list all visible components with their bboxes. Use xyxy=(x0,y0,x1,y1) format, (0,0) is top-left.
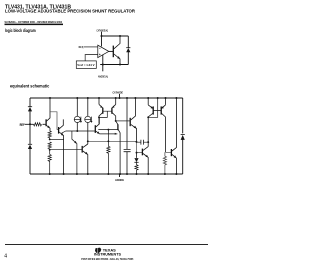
svg-text:REF (R): REF (R) xyxy=(79,45,84,49)
wire: R2/R3 node to Q2 emitter xyxy=(50,138,64,140)
wire: node A bus (I2/Q3 collector to C1) xyxy=(88,140,137,142)
resistor R7 xyxy=(163,156,166,174)
node A: anode pin tick xyxy=(119,174,121,177)
header rule xyxy=(5,24,64,26)
wire: op-amp V- to anode rail xyxy=(102,55,104,65)
wire: logic top rail xyxy=(102,35,129,37)
wire: right diode branch xyxy=(182,98,184,174)
wire: cathode top rail xyxy=(30,97,183,99)
wire: right mirror base tie xyxy=(148,98,161,117)
diode D5 (logic diagram, anode-cathode) xyxy=(126,47,130,49)
transistor Q9a xyxy=(147,98,149,105)
wire: Q8 base chain xyxy=(165,152,172,156)
capacitor C2 (Q6 base to anode) xyxy=(126,98,128,174)
diode D1 (REF to cathode clamp) xyxy=(28,106,32,108)
current mirror pair Q9a/Q9b (right) xyxy=(148,98,165,152)
transistor Q5 xyxy=(116,121,120,174)
svg-text:ANODE (A): ANODE (A) xyxy=(98,75,108,79)
resistor R1 (REF series) xyxy=(34,123,42,126)
junction dots (logic diagram) xyxy=(100,35,102,37)
transistor Q (logic diagram output NPN) xyxy=(113,36,120,65)
junction dots bottom rail xyxy=(49,173,178,175)
transistor Q8 (output) xyxy=(171,98,176,174)
svg-text:CATHODE: CATHODE xyxy=(113,90,124,94)
svg-text:SLVS262A – OCTOBER 2000 – REVI: SLVS262A – OCTOBER 2000 – REVISED MARCH … xyxy=(5,20,63,24)
wire: Q4/Q5 upper tie xyxy=(98,129,118,131)
node A: anode pin tick (logic diagram) xyxy=(102,65,104,72)
wire: mirror base tie xyxy=(99,111,112,117)
wire: right branch to diode D5 xyxy=(127,36,129,65)
diode D4 (anode to cathode protection) xyxy=(181,134,185,136)
wire: left clamp branch xyxy=(29,98,31,174)
current mirror pair Q5a/Q5b (middle) xyxy=(99,98,116,124)
node K: cathode pin tick xyxy=(119,94,121,98)
svg-text:REF: REF xyxy=(20,123,25,127)
transistor Q5a xyxy=(98,98,100,104)
svg-text:V ref = 1.24 V: V ref = 1.24 V xyxy=(77,63,94,67)
Vref reference box xyxy=(76,61,96,69)
transistor Q7 xyxy=(142,147,148,174)
diode D3 xyxy=(136,153,138,158)
current source I2 xyxy=(85,98,92,144)
svg-text:4: 4 xyxy=(4,254,7,260)
diode D2 (anode to REF clamp) xyxy=(28,143,32,145)
wire: Q7 base feed xyxy=(137,142,143,153)
transistor Q4 xyxy=(95,117,99,133)
transistor Q6 xyxy=(130,98,136,142)
resistor R5 xyxy=(107,130,110,174)
wire: Q4/Q5 emitter join xyxy=(100,133,118,135)
wire: I1 output bus to Q4 base xyxy=(61,131,95,133)
footer rule xyxy=(5,243,208,246)
wire: R3/R4 node to Q3 base xyxy=(50,149,82,154)
wire: mirror output to Q6 base xyxy=(116,120,131,122)
wire: logic bottom rail xyxy=(100,64,128,66)
capacitor C1 (compensation) xyxy=(137,141,149,143)
resistor R4 xyxy=(48,154,51,174)
resistor R3 xyxy=(48,142,51,149)
current source I1 xyxy=(74,98,81,131)
TI logo globe xyxy=(95,248,101,253)
svg-text:POST OFFICE BOX 655303 • DALLA: POST OFFICE BOX 655303 • DALLAS, TEXAS 7… xyxy=(81,257,133,261)
wire: Q1 collector to Q2 base tap xyxy=(50,112,59,130)
transistor Q3 xyxy=(82,144,88,174)
junction dots top rail xyxy=(49,97,178,99)
transistor Q2 xyxy=(59,119,64,174)
svg-text:ANODE: ANODE xyxy=(115,178,124,182)
wire: op-amp supply tap xyxy=(101,36,103,46)
junction dots interior xyxy=(29,116,149,153)
wire: anode bottom rail xyxy=(30,173,183,175)
wire: op-amp output to Q base xyxy=(109,50,114,52)
wire: Vref box to noninverting input xyxy=(85,55,98,61)
svg-text:equivalent schematic: equivalent schematic xyxy=(10,84,50,89)
transistor Q9b xyxy=(165,98,167,105)
transistor Q1 xyxy=(45,98,50,131)
transistor Q5b xyxy=(115,98,117,104)
wire: mirror line through Q7 xyxy=(147,142,149,147)
op-amp U1 xyxy=(98,45,109,57)
resistor R2 xyxy=(48,131,51,139)
svg-text:CATHODE (K): CATHODE (K) xyxy=(97,28,109,32)
wire: REF input to inverting input xyxy=(84,46,98,48)
svg-text:LOW-VOLTAGE ADJUSTABLE PRECISI: LOW-VOLTAGE ADJUSTABLE PRECISION SHUNT R… xyxy=(5,9,136,14)
node K: cathode pin tick (logic diagram) xyxy=(101,32,103,36)
resistor R6 xyxy=(135,162,138,174)
wire: bus emitter branch xyxy=(72,131,77,174)
wire: REF input xyxy=(25,123,45,125)
svg-text:logic block diagram: logic block diagram xyxy=(5,28,36,33)
